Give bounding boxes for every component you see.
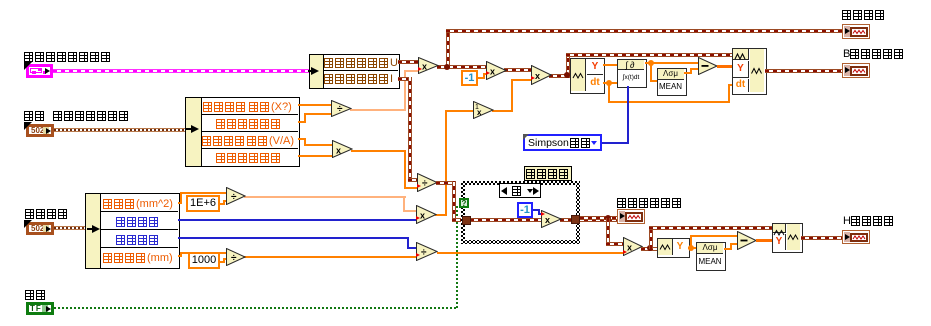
node: divide ÷ (voltage probe/amp) — [331, 100, 352, 117]
wire: divideL output to divideH bottom — [244, 256, 417, 258]
wire: brown cluster wire to unbundle2 — [54, 128, 188, 132]
wire: 截面积 to divideA top — [178, 202, 182, 204]
node: label 探头、前置放大器设置 — [24, 111, 130, 121]
wire: Y out to integral — [603, 64, 618, 66]
svg-text:÷: ÷ — [231, 192, 237, 203]
svg-text:x: x — [420, 211, 425, 221]
wire: 磁路长度 to divideL top — [178, 255, 182, 257]
node: label B磁感应强度 — [843, 49, 905, 59]
node: case structure 电流反向 — [461, 181, 580, 244]
node: build waveform 2 — [772, 223, 803, 253]
node: case right tunnel — [571, 215, 580, 224]
wire: pink cluster wire to unbundle1 — [53, 69, 309, 73]
node: numeric constant 1000 — [188, 252, 220, 269]
wire: unbundle2 field1 to divideV top — [298, 104, 332, 106]
node: integral x(t)dt — [617, 59, 647, 88]
wire: -1 const to multiply2 bottom — [478, 77, 485, 79]
node: junction dot — [564, 72, 570, 78]
svg-text:x: x — [627, 243, 632, 253]
wire: -1 to multiply5 top — [533, 209, 540, 211]
node: control terminal 磁环参数 (cluster) — [26, 222, 54, 235]
wire: junction up to rail2, rail2 to build waveform 1 — [566, 53, 570, 78]
wire: waveform I out of unbundle1 down to divideI — [398, 77, 412, 81]
node: control terminal 原始电压电流波形 (cluster of waveforms) — [26, 64, 53, 78]
node: multiply ×1 (U * factor) — [418, 57, 439, 74]
node: control terminal 探头、前置放大器设置 (cluster) — [26, 124, 54, 137]
node: unbundle by name 磁环参数 (4 fields) — [85, 193, 180, 269]
svg-text:÷: ÷ — [231, 253, 237, 264]
wire: input arrow unbundle2 — [186, 128, 193, 130]
wire: divideH output to multiply4 bottom — [437, 252, 624, 254]
node: multiply ×4 (I * N1/L) — [623, 237, 643, 256]
svg-text:x: x — [545, 215, 550, 225]
node: case selector terminal ? — [459, 198, 469, 208]
wire: MEAN2 out to subtract2 bottom — [724, 248, 732, 250]
node: label 原始电压电流波形 — [24, 52, 112, 62]
wire: unbundle2 field2 to divideV bottom — [298, 121, 306, 123]
wire: unbundle2 field4 to multiplyC bottom — [298, 155, 333, 157]
node: boolean control terminal 反向 TF — [26, 302, 54, 315]
svg-text:x: x — [490, 67, 495, 77]
svg-text:x: x — [477, 108, 482, 117]
wire: junction up and top rail to 感应电压 — [446, 29, 450, 69]
wire: getY out junction, up to subtract2 top, into MEAN2 — [688, 247, 696, 249]
svg-text:÷: ÷ — [337, 104, 343, 115]
wire: waveform U out of unbundle1 to multiply1 — [398, 60, 419, 64]
wire: multiply1 output to junction to multiply2 — [437, 65, 487, 69]
wire: multiply3 out to get waveform components — [549, 74, 571, 78]
node: divide ÷A (area/1E+6) — [226, 187, 246, 205]
wire: BW2 out to H indicator — [801, 236, 842, 240]
node: label 电流反向 — [524, 166, 572, 181]
node: divide ÷H (N1/L) — [416, 242, 438, 261]
wire: divideA output to multiplyNA top — [244, 196, 406, 198]
wire: 副边匝数 blue to multiplyNA bottom — [178, 219, 417, 221]
node: numeric constant -1 (orange) — [461, 70, 478, 86]
wire: dt out, junction, down and long run to BW1 dt — [603, 82, 618, 84]
node: build waveform 1 — [732, 48, 767, 95]
wire: arrow into unbundle1 — [308, 70, 314, 72]
node: divide ÷I (I/factor) — [417, 173, 438, 192]
node: label H磁场强度 — [843, 216, 895, 226]
wire: 1000 to divideL bottom — [220, 261, 225, 263]
node: subtract2 — [737, 231, 757, 250]
node: MEAN 1 — [657, 68, 687, 96]
wire: multiplyC output down to divideI bottom — [351, 150, 406, 152]
wire: input arrow unbundle3 — [87, 228, 94, 230]
wire: divideV output up to multiply1 bottom (light orange) — [350, 109, 406, 111]
svg-text:÷: ÷ — [421, 248, 427, 259]
wire: brown cluster wire to unbundle3 — [54, 226, 88, 230]
wire: case out to junction, indicator and down to multiply4 — [580, 216, 617, 220]
wire: integral out to subtract1 top, branch down to MEAN1 — [645, 62, 699, 64]
node: numeric constant 1E+6 — [186, 195, 220, 212]
node: indicator terminal 感应电压 — [842, 24, 870, 39]
node: case selector 真 — [499, 183, 541, 198]
node: label 磁环参数 — [25, 209, 69, 219]
node: reciprocal 1/x — [473, 101, 494, 119]
node: label 实际原边电流 — [617, 198, 683, 208]
node: indicator terminal B磁感应强度 — [842, 63, 870, 78]
node: label 反向 — [25, 290, 47, 300]
svg-text:x: x — [422, 62, 427, 72]
wire: unbundle2 field3 to multiplyC top — [298, 138, 306, 140]
node: indicator terminal H磁场强度 — [842, 230, 870, 244]
node: multiply × (current probe*amp) — [332, 140, 353, 158]
node: subtract1 — [698, 57, 718, 75]
node: unbundle by name U/I (原始副边电压U / 原始原边电流I) — [309, 54, 400, 89]
node: numeric constant -1 (blue I32) — [517, 202, 533, 218]
wire: multiply4 out junction to getY and rail3 to BW2 — [641, 247, 657, 251]
node: multiply ×2 (by -1) — [486, 61, 507, 80]
wire: Simpson enum blue to integral bottom — [602, 142, 629, 144]
wire: subtract1 out thick to BW1 Y — [717, 65, 733, 68]
node: multiply ×NA (area*N2) — [416, 205, 437, 224]
wire: 原边匝数 blue to divideH top — [178, 237, 409, 239]
node: multiply ×3 (by 1/NA) — [531, 65, 552, 85]
wire: multiply2 out to multiply3 — [504, 68, 532, 72]
node: multiply ×5 (reverse) — [541, 210, 562, 228]
wire: waveform wire through case — [470, 218, 543, 222]
svg-text:÷: ÷ — [422, 179, 428, 190]
svg-text:x: x — [535, 71, 540, 81]
node: enum constant Simpson法则 — [523, 134, 602, 151]
wire: reciprocal out up to multiply3 bottom — [492, 110, 513, 112]
wire: 1E+6 to divideA bottom — [220, 203, 225, 205]
node: junction dot — [444, 64, 450, 70]
node: MEAN 2 — [696, 242, 726, 271]
node: divide ÷L (length/1000) — [226, 248, 246, 266]
svg-text:x: x — [336, 146, 341, 156]
wire: boolean green wire to case selector — [54, 307, 457, 309]
wire: divideI out, down to case tunnel — [436, 181, 455, 185]
node: unbundle by name probe settings (4 fields) — [185, 97, 300, 167]
wire: NA product vertical up to reciprocal — [435, 214, 447, 216]
node: get waveform components (Y, dt) — [570, 58, 605, 94]
wire: subtract2 out thick to BW2 Y — [756, 239, 772, 242]
node: indicator terminal 实际原边电流 — [617, 209, 645, 224]
node: label 感应电压 — [842, 10, 886, 20]
wire: MEAN1 out to subtract1 bottom — [684, 72, 692, 74]
node: case left tunnel — [462, 216, 471, 225]
wire: BW1 out to B indicator — [765, 69, 842, 73]
node: get waveform Y — [657, 238, 690, 258]
